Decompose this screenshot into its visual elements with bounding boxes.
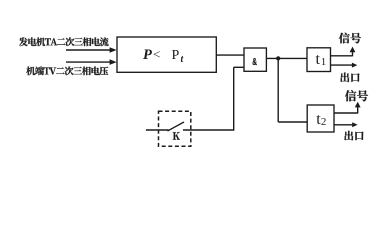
svg-text:t: t <box>181 54 185 65</box>
node label: generator TA secondary three-phase current input <box>19 37 109 46</box>
wire: t2 signal output (up arrow) <box>334 102 361 114</box>
wire: t2 exit output (right arrow) <box>334 122 358 127</box>
wire: junction down-leg <box>277 58 279 122</box>
svg-text:t: t <box>316 51 321 68</box>
AND gate U2 <box>244 48 266 71</box>
label K for contact <box>173 132 180 139</box>
wire: contact input lead <box>146 129 169 131</box>
label: exit (t2 output) <box>344 131 363 141</box>
timer t1 box <box>307 48 331 72</box>
label: exit (t1 output) <box>340 73 359 83</box>
label: signal (t1 output) <box>339 33 361 44</box>
wire: AND gate output to t1 <box>266 57 307 59</box>
switch K blade (open contact) <box>168 122 185 131</box>
dashed enclosure around contact K <box>159 111 191 146</box>
svg-text:P: P <box>172 48 180 63</box>
junction node dot <box>276 56 280 60</box>
comparator U1: low-power criterion box P &lt; Pt <box>117 37 216 72</box>
svg-text:1: 1 <box>321 56 327 68</box>
wire: riser up to AND gate lower input <box>233 67 235 130</box>
wire: t1 signal output (up arrow) <box>331 47 356 57</box>
node label: machine-terminal TV secondary three-phase voltage input <box>26 66 108 75</box>
timer t2 box <box>307 105 334 132</box>
svg-text:&: & <box>252 55 257 67</box>
svg-text:P: P <box>143 47 152 63</box>
wire: t1 exit output (right arrow) <box>331 63 358 68</box>
label: signal (t2 output) <box>345 90 368 101</box>
svg-text:<: < <box>153 47 160 62</box>
wire: TV voltage input arrow into P comparator <box>66 59 117 65</box>
wire: contact output lead to riser <box>183 129 234 131</box>
wire: stub into AND gate lower input <box>234 66 244 68</box>
svg-text:2: 2 <box>321 116 327 128</box>
wire: TA current input arrow into P comparator <box>66 47 117 53</box>
wire: P box output to AND gate top input <box>216 54 244 56</box>
wire: junction to t2 input <box>278 121 307 123</box>
